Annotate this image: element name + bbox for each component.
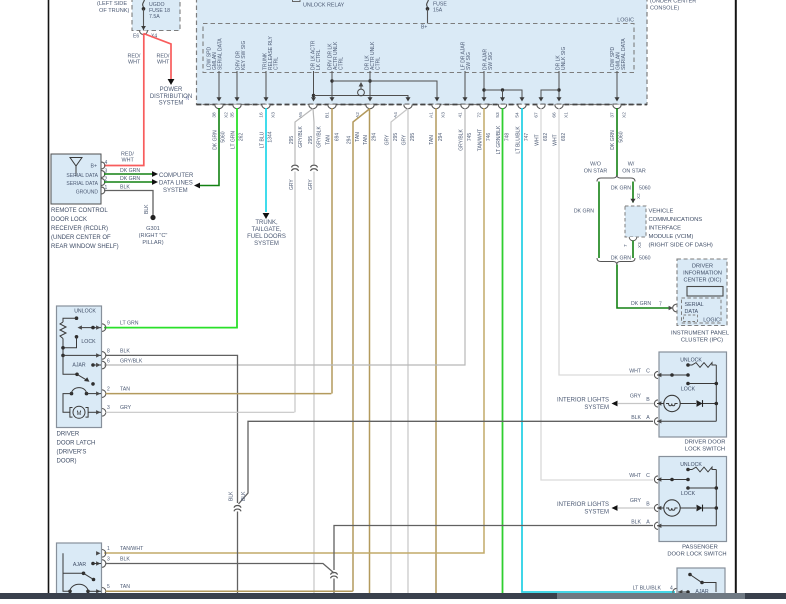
wire DR AJAR SW SIG to pin 72 (483, 71, 485, 100)
svg-text:DK GRN: DK GRN (611, 186, 631, 192)
svg-text:GRY: GRY (385, 134, 391, 145)
svg-text:WHT: WHT (629, 369, 642, 375)
wire DK GRN 5060 pin37 (616, 108, 618, 176)
svg-text:RECEIVER (RCDLR): RECEIVER (RCDLR) (51, 226, 108, 232)
wire fuse to connector (143, 9, 145, 31)
junction dot A2 (368, 79, 371, 82)
VCIM connector X2 (629, 206, 637, 210)
wire DK GRN w/o onstar branch (598, 182, 600, 259)
svg-text:(LEFT SIDE: (LEFT SIDE (97, 1, 127, 7)
svg-text:5060: 5060 (639, 256, 651, 262)
svg-text:CLUSTER (IPC): CLUSTER (IPC) (681, 338, 723, 344)
wire DK GRN to VCIM (632, 182, 634, 203)
left page border (48, 0, 50, 593)
rear latch pins (102, 550, 106, 558)
svg-text:MODULE (VCIM): MODULE (VCIM) (649, 234, 694, 240)
right page border (735, 0, 737, 593)
ajar bus wire (484, 90, 522, 100)
svg-text:5060: 5060 (221, 131, 227, 142)
svg-text:B+: B+ (91, 164, 98, 170)
svg-text:UNLOCK RELAY: UNLOCK RELAY (303, 3, 345, 9)
ajar contact to pin 6 (91, 363, 95, 367)
svg-text:LOCK: LOCK (681, 491, 696, 497)
svg-text:TRUNK,: TRUNK, (255, 220, 278, 226)
merge brace (597, 258, 635, 265)
svg-text:WHT: WHT (122, 158, 135, 164)
svg-text:LK CTRL: LK CTRL (316, 49, 322, 70)
svg-text:INSTRUMENT PANEL: INSTRUMENT PANEL (671, 331, 730, 337)
resistor R1 (60, 322, 66, 339)
svg-text:DISTRIBUTION: DISTRIBUTION (150, 94, 192, 100)
RCDLR pins 4,3,2,1 (102, 162, 105, 169)
svg-text:1: 1 (107, 546, 110, 552)
svg-text:INTERIOR LIGHTS: INTERIOR LIGHTS (557, 502, 609, 508)
svg-text:AJAR: AJAR (73, 562, 87, 568)
pin 53 (498, 105, 506, 109)
svg-text:LOCK: LOCK (681, 387, 696, 393)
svg-text:W/: W/ (628, 162, 635, 168)
svg-text:(RIGHT SIDE OF DASH): (RIGHT SIDE OF DASH) (649, 243, 713, 249)
wire DK GRN below VCIM (632, 241, 634, 259)
svg-text:E6: E6 (133, 34, 139, 40)
svg-text:DRIVER DOOR: DRIVER DOOR (685, 440, 726, 446)
svg-text:AJAR: AJAR (72, 363, 86, 369)
svg-text:4: 4 (105, 160, 108, 166)
svg-text:8: 8 (107, 349, 110, 355)
svg-text:DATA LINES: DATA LINES (159, 181, 193, 187)
pin 72 (480, 105, 488, 109)
svg-text:GRY: GRY (308, 179, 314, 190)
svg-text:67: 67 (534, 112, 540, 118)
IPC pin bump (673, 304, 677, 312)
svg-text:BLK: BLK (120, 556, 130, 562)
svg-text:294: 294 (372, 133, 378, 142)
wire TAN latch pin2 to B1 (106, 393, 332, 395)
wire GRY pin A4 branch a (391, 109, 408, 594)
pin A5 (309, 105, 317, 109)
svg-text:SERIAL: SERIAL (685, 302, 704, 308)
svg-text:TAN: TAN (120, 584, 130, 590)
svg-text:LOGIC: LOGIC (617, 18, 634, 24)
lock contact (75, 335, 79, 339)
rear ajar arm (63, 553, 84, 573)
svg-text:CONSOLE): CONSOLE) (650, 6, 679, 12)
motor M (70, 408, 73, 418)
svg-text:DK GRN: DK GRN (120, 176, 140, 182)
svg-text:LOCK SWITCH: LOCK SWITCH (685, 447, 725, 453)
UGDO fuse block box (132, 0, 180, 31)
bottom bar (0, 593, 557, 599)
svg-text:LT GRN/BLK: LT GRN/BLK (496, 125, 502, 154)
wire GRY driver switch B to interior lights (618, 403, 654, 405)
svg-text:UNLOCK: UNLOCK (680, 462, 702, 468)
wire LT BLU 1344 pin16 to trunk system (265, 108, 267, 212)
wire BLK ground pin1 (104, 191, 153, 216)
fuse F2 15A (427, 0, 429, 7)
svg-text:37: 37 (610, 112, 616, 118)
svg-text:GRY: GRY (289, 179, 295, 190)
svg-text:1344: 1344 (268, 131, 274, 142)
pin 35 (233, 105, 241, 109)
wire DRV DR LK ACTR UNLK to pin B1 (331, 71, 333, 100)
svg-text:54: 54 (515, 112, 521, 118)
wire to pin 53 (502, 90, 504, 100)
svg-text:295: 295 (308, 136, 314, 145)
wire TAN 694 pin B1 to latch pin2 (331, 108, 333, 394)
svg-text:UNLOCK: UNLOCK (680, 358, 702, 364)
svg-text:COMPUTER: COMPUTER (159, 173, 194, 179)
relay contact symbol (358, 89, 365, 96)
svg-text:ON STAR: ON STAR (622, 169, 646, 175)
svg-text:DATA: DATA (685, 309, 699, 315)
junction dot B1 (330, 79, 333, 82)
split brace (597, 175, 635, 182)
rear ajar switch box (677, 568, 725, 599)
wire DK GRN 5060 pin38 to data lines (200, 108, 219, 186)
wire DR LK UNLK SIG to pin 66 (558, 71, 560, 100)
svg-text:295: 295 (410, 133, 416, 142)
svg-text:B: B (646, 502, 650, 508)
svg-text:SYSTEM: SYSTEM (163, 188, 188, 194)
junction dot 53 (501, 88, 504, 91)
wire GRY/BLK 745 pin41 to latch pin6 (104, 108, 465, 365)
svg-text:B+: B+ (421, 25, 427, 31)
DIC logic dashed box (682, 298, 722, 323)
wire DK GRN to IPC (617, 265, 670, 309)
resistor to ground rail (62, 339, 64, 356)
svg-text:W/O: W/O (590, 162, 601, 168)
junction dot 72 (482, 88, 485, 91)
instrument panel cluster outer dashed box (677, 259, 727, 326)
svg-text:7.5A: 7.5A (149, 14, 160, 20)
inline connector BLK (234, 505, 241, 507)
wire GRY latch pin3 to A5 branch (106, 411, 295, 413)
pin 16 (262, 105, 270, 109)
svg-text:CTRL: CTRL (339, 57, 345, 70)
svg-text:INTERIOR LIGHTS: INTERIOR LIGHTS (557, 398, 609, 404)
antenna symbol (75, 165, 77, 176)
svg-text:REAR WINDOW SHELF): REAR WINDOW SHELF) (51, 244, 119, 250)
svg-text:WHT: WHT (157, 60, 170, 66)
svg-text:DK GRN: DK GRN (631, 301, 651, 307)
svg-text:3: 3 (107, 556, 110, 562)
svg-text:OF TRUNK): OF TRUNK) (99, 8, 129, 14)
wire BLK driver lock switch A (239, 421, 654, 504)
wire RED/WHT trunk feed (104, 34, 144, 166)
wire BLK latch pin8 (106, 355, 238, 503)
svg-text:GRY/BLK: GRY/BLK (317, 126, 323, 148)
svg-text:747: 747 (524, 133, 530, 142)
wire DR LK ACTR UNLK to pin A2 (369, 71, 371, 100)
svg-text:295: 295 (393, 133, 399, 142)
wire LT GRN 262 pin35 to door latch pin9 (104, 108, 237, 328)
wire BLK 2 to bottom (333, 579, 335, 594)
svg-text:DK GRN: DK GRN (611, 256, 631, 262)
svg-text:REMOTE CONTROL: REMOTE CONTROL (51, 208, 108, 214)
pin 66 (555, 105, 563, 109)
wire GRY pin A4 branch b (407, 109, 409, 594)
pin 67 (537, 105, 545, 109)
unlock relay label (293, 0, 301, 2)
wire fuse to B+ (427, 9, 429, 24)
svg-text:(UNDER CENTER: (UNDER CENTER (650, 0, 696, 5)
svg-text:LOCK: LOCK (81, 339, 96, 345)
svg-text:A: A (646, 519, 650, 525)
svg-text:(UNDER CENTER OF: (UNDER CENTER OF (51, 235, 111, 241)
svg-text:WHT: WHT (553, 134, 559, 145)
svg-text:X2: X2 (622, 112, 628, 118)
latch switch arm pin 9 (81, 327, 101, 329)
svg-text:BLK: BLK (631, 415, 641, 421)
wire GRY below connector b (313, 172, 315, 594)
svg-text:KEY SW SIG: KEY SW SIG (241, 41, 247, 70)
svg-text:DRIVER: DRIVER (57, 432, 80, 438)
svg-text:X2: X2 (636, 193, 641, 199)
svg-text:FUEL DOORS: FUEL DOORS (247, 234, 286, 240)
svg-text:692: 692 (543, 133, 549, 142)
svg-text:BLK: BLK (241, 491, 247, 501)
svg-text:A: A (646, 415, 650, 421)
svg-text:LOGIC: LOGIC (703, 318, 720, 324)
svg-text:GRY/BLK: GRY/BLK (298, 126, 304, 148)
svg-text:C: C (646, 473, 650, 479)
svg-text:41: 41 (458, 112, 464, 118)
ground G301 (150, 215, 155, 220)
ajar switch arm (63, 355, 77, 374)
bus wire to pin A1 (332, 81, 437, 100)
svg-text:DK GRN: DK GRN (574, 209, 594, 215)
svg-text:M: M (77, 411, 82, 417)
rear door latch box (57, 543, 102, 599)
inline connector BLK 2 (331, 572, 338, 574)
passenger door lock switch box (659, 457, 727, 542)
svg-text:SYSTEM: SYSTEM (584, 509, 609, 515)
wire DR LK ACTR LK CTRL to pin A5 (313, 71, 315, 100)
svg-text:CTRL: CTRL (274, 57, 280, 70)
svg-text:72: 72 (477, 112, 483, 118)
svg-text:DRIVER: DRIVER (692, 264, 713, 270)
svg-text:GROUND: GROUND (76, 190, 99, 196)
wire TAN rear latch pin5 to A2 branch (106, 590, 353, 592)
svg-text:16: 16 (259, 112, 265, 118)
svg-text:9: 9 (107, 321, 110, 327)
wire LOW SPD serial to pin 37 (616, 71, 618, 100)
wire BLK rear latch pin3 (106, 564, 335, 574)
svg-text:UNLOCK: UNLOCK (74, 309, 96, 315)
svg-text:B: B (646, 397, 650, 403)
svg-text:66: 66 (552, 112, 558, 118)
vehicle communications interface module box (625, 206, 646, 237)
svg-text:ON STAR: ON STAR (584, 169, 608, 175)
svg-text:GRY: GRY (120, 405, 132, 411)
svg-text:PASSENGER: PASSENGER (682, 545, 718, 551)
wire LT GRN/BLK 748 pin53 (502, 108, 504, 593)
svg-text:SERIAL DATA: SERIAL DATA (621, 38, 627, 70)
svg-text:294: 294 (347, 136, 353, 145)
svg-text:X2: X2 (224, 112, 230, 118)
wire BLK to bottom (237, 512, 239, 594)
pin 54 (518, 105, 526, 109)
svg-text:GRY: GRY (402, 134, 408, 145)
svg-text:WHT: WHT (629, 473, 642, 479)
wire GRY/BLK pin A5 branch a (295, 109, 313, 166)
junction dot 66 (557, 88, 560, 91)
svg-text:7: 7 (659, 302, 662, 308)
svg-text:DK GRN: DK GRN (610, 130, 616, 150)
wire GRY/BLK pin A5 branch b (313, 109, 314, 166)
svg-text:C: C (646, 369, 650, 375)
svg-text:BLK: BLK (120, 185, 130, 191)
svg-text:(DRIVER'S: (DRIVER'S (57, 450, 87, 456)
svg-text:748: 748 (505, 133, 511, 142)
svg-text:CENTER (DIC): CENTER (DIC) (684, 278, 722, 284)
svg-text:GRY: GRY (630, 498, 642, 504)
door switch arc (70, 392, 74, 396)
svg-text:694: 694 (335, 133, 341, 142)
wire WHT 692 pin66 to driver lock switch C (559, 108, 653, 375)
driver door lock switch box (659, 352, 727, 437)
svg-text:SERIAL DATA: SERIAL DATA (66, 181, 98, 187)
DIC display rectangle (687, 287, 723, 297)
svg-text:WHT: WHT (535, 134, 541, 145)
svg-text:5060: 5060 (639, 186, 651, 192)
svg-text:DOOR LOCK SWITCH: DOOR LOCK SWITCH (667, 552, 726, 558)
driver door latch box (57, 306, 102, 428)
svg-text:2: 2 (107, 387, 110, 393)
latch pins (102, 324, 106, 332)
wire logic pin LOW SPD to pin 38 (218, 71, 220, 100)
svg-text:6: 6 (107, 359, 110, 365)
svg-text:TAN: TAN (429, 135, 435, 145)
svg-text:BLK: BLK (144, 204, 150, 214)
svg-text:SW SIG: SW SIG (488, 52, 494, 70)
svg-text:BLK: BLK (229, 491, 235, 501)
pin 38 (215, 105, 223, 109)
pin A4 (404, 105, 412, 109)
svg-text:SYSTEM: SYSTEM (159, 101, 184, 107)
svg-text:LT BLU/BLK: LT BLU/BLK (633, 586, 662, 592)
svg-text:294: 294 (438, 133, 444, 142)
svg-text:X3: X3 (271, 112, 277, 118)
svg-text:COMMUNICATIONS: COMMUNICATIONS (649, 217, 703, 223)
svg-text:(RIGHT "C": (RIGHT "C" (139, 233, 168, 239)
wire logic pin TRUNK RELEASE to pin 16 (265, 71, 267, 100)
svg-text:TAN: TAN (326, 135, 332, 145)
svg-text:746: 746 (486, 133, 492, 142)
svg-text:TAN/WHT: TAN/WHT (120, 546, 144, 552)
remote control door lock receiver (RCDLR) box (51, 154, 101, 204)
logic sub-box of BCM (203, 24, 634, 73)
svg-text:BLK: BLK (120, 349, 130, 355)
wire TAN/WHT 746 pin72 to rear latch pin1 (104, 108, 484, 553)
body control module bottom edge (197, 104, 648, 106)
inline connector on GRY wire a (292, 165, 299, 167)
svg-text:15A: 15A (433, 8, 443, 14)
svg-text:TAN: TAN (363, 135, 369, 145)
svg-text:262: 262 (239, 133, 245, 142)
svg-text:7: 7 (623, 244, 628, 247)
svg-text:DOOR LATCH: DOOR LATCH (57, 441, 96, 447)
wire GRY passenger switch B to interior lights (618, 507, 654, 509)
svg-text:5060: 5060 (619, 131, 625, 142)
svg-text:LT BLU/BLK: LT BLU/BLK (516, 126, 522, 154)
VCIM bottom pin (629, 237, 637, 241)
svg-text:3: 3 (107, 405, 110, 411)
svg-text:X3: X3 (637, 242, 642, 248)
svg-text:UNLK SIG: UNLK SIG (561, 47, 567, 70)
svg-text:692: 692 (561, 133, 567, 142)
wire DK GRN serial data pin2 (104, 181, 152, 183)
wire DK GRN serial data pin3 (104, 173, 152, 175)
wire BLK passenger lock switch A (334, 526, 653, 571)
wire TAN pin A2 branch b (369, 109, 371, 594)
svg-text:POWER: POWER (160, 87, 183, 93)
pin B1 (328, 105, 336, 109)
wire LF DR AJAR to pin 41 (464, 71, 466, 100)
junction dot A5 (312, 94, 315, 97)
svg-text:LT GRN: LT GRN (120, 321, 139, 327)
svg-text:INTERFACE: INTERFACE (649, 226, 682, 232)
svg-text:GRY/BLK: GRY/BLK (120, 359, 143, 365)
wire TAN 294 pin A1 (435, 108, 437, 593)
pin A1 (432, 105, 440, 109)
svg-text:CTRL: CTRL (376, 57, 382, 70)
svg-text:BLK: BLK (631, 519, 641, 525)
svg-text:TAN: TAN (120, 387, 130, 393)
svg-text:35: 35 (230, 112, 236, 118)
svg-text:TAN: TAN (355, 132, 361, 142)
pin 37 (613, 105, 621, 109)
wire RED/WHT to power distribution (144, 34, 172, 80)
svg-text:B1: B1 (325, 112, 331, 118)
svg-text:A1: A1 (429, 112, 435, 118)
pin 41 (461, 105, 469, 109)
svg-text:SYSTEM: SYSTEM (254, 241, 279, 247)
svg-text:4: 4 (670, 586, 673, 592)
svg-text:DOOR): DOOR) (57, 459, 77, 465)
svg-text:38: 38 (212, 112, 218, 118)
svg-text:LT BLU: LT BLU (260, 131, 266, 148)
svg-text:DK GRN: DK GRN (120, 168, 140, 174)
wire LT BLU/BLK 747 pin54 to rear ajar switch (522, 108, 675, 592)
svg-text:GRY/BLK: GRY/BLK (459, 129, 465, 151)
svg-text:SYSTEM: SYSTEM (584, 405, 609, 411)
svg-text:SERIAL DATA: SERIAL DATA (218, 38, 224, 70)
body control module U1 (outer dashed box) (197, 0, 648, 105)
svg-text:X3: X3 (441, 112, 447, 118)
svg-text:TAN/WHT: TAN/WHT (478, 129, 484, 151)
svg-text:53: 53 (495, 112, 501, 118)
svg-text:DOOR LOCK: DOOR LOCK (51, 217, 87, 223)
wire TAN pin A2 branch a (353, 109, 370, 592)
wire WHT 692 pin67 to passenger lock switch C (541, 108, 653, 480)
svg-text:X1: X1 (564, 112, 570, 118)
svg-text:LT GRN: LT GRN (231, 131, 237, 149)
svg-text:DK GRN: DK GRN (213, 130, 219, 150)
svg-text:VEHICLE: VEHICLE (649, 209, 674, 215)
svg-text:PILLAR): PILLAR) (142, 240, 163, 246)
svg-text:G301: G301 (146, 226, 160, 232)
wire GRY below connector a (294, 172, 296, 413)
bus wire to pin A4 (314, 96, 409, 101)
svg-text:SERIAL DATA: SERIAL DATA (66, 173, 98, 179)
svg-text:WHT: WHT (128, 60, 141, 66)
fuse UGDO symbol (143, 0, 145, 7)
pin A2 (366, 105, 374, 109)
pin 8 internal wire (63, 354, 101, 356)
svg-text:INFORMATION: INFORMATION (683, 271, 722, 277)
svg-text:295: 295 (289, 136, 295, 145)
